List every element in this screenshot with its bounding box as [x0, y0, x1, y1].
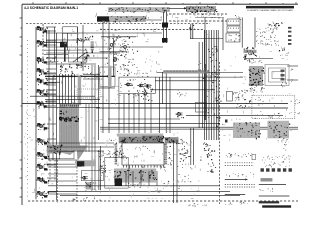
wire bus left vertical A2	[46, 30, 48, 47]
choke L601 dark blob	[77, 161, 84, 166]
parts cluster x172-192	[181, 166, 184, 169]
bus horizontal y119	[108, 118, 180, 120]
pin column x90-94	[91, 41, 94, 44]
audio block top pins	[111, 153, 114, 156]
wire horizontal y51.8	[100, 51, 128, 53]
wire vertical x255	[254, 18, 256, 48]
IC U301 pin marks upper	[60, 113, 61, 114]
dark marks above bottom dashed	[93, 198, 96, 199]
block box outline center	[119, 77, 155, 93]
label text HK bottom right	[285, 138, 288, 141]
wire horizontal left h2	[46, 46, 163, 48]
legend dotted row 1	[225, 162, 254, 164]
gray blob bottom center	[86, 182, 93, 189]
box outline B201	[63, 27, 78, 34]
legend text bottom left	[225, 203, 226, 205]
trace loop middle	[269, 68, 286, 82]
text marks right edge	[290, 69, 293, 71]
border frame left ruler line	[21, 4, 23, 205]
connector CN802 box	[227, 26, 240, 32]
resistor cluster x84-93 dense	[88, 55, 91, 56]
jack J604 row	[277, 40, 279, 43]
shield dotted box mid	[77, 89, 100, 98]
wire vertical x54.3	[53, 27, 55, 62]
wire horizontal y38.6 right	[190, 38, 223, 40]
transistor Q203 lower stage	[40, 154, 43, 157]
parts row below caps	[139, 182, 140, 185]
legend note text row 1	[241, 156, 244, 159]
parts cluster right of IC	[179, 153, 182, 154]
wire vertical pair x190-192 top	[190, 24, 192, 39]
wire horizontal y54.4	[44, 53, 68, 55]
wire horizontal left h0	[46, 32, 100, 34]
trace loop outer	[265, 65, 289, 86]
transistor Q402	[127, 83, 130, 86]
wire bus left vertical A	[48, 30, 50, 160]
border frame left tick marks	[20, 17, 23, 19]
wire horizontal y89.8	[150, 89, 215, 91]
wire horizontal left h4	[46, 57, 108, 59]
marks x175-186	[176, 93, 179, 94]
scan texture right	[238, 39, 240, 41]
wire vertical x83	[82, 25, 84, 71]
cap clump 4	[149, 177, 152, 178]
wire vertical pair x163-166 upper	[163, 12, 165, 43]
wire horizontal left h1	[46, 39, 90, 41]
wire horizontal y185.8	[48, 185, 220, 187]
left column vertical wire	[35, 27, 37, 199]
scan texture mid	[76, 96, 79, 99]
bus wires into IC top	[59, 74, 61, 104]
relay RL1 blob	[162, 23, 168, 28]
marks near x190 top	[193, 24, 196, 27]
parts column x200-218 bottom	[204, 150, 207, 151]
legend gray bar	[261, 178, 273, 181]
transistor Q404	[146, 85, 149, 88]
wire horizontal y74.5 right of bus	[83, 74, 100, 76]
dashed vertical x57 bottom	[56, 160, 58, 202]
diagonal wire	[73, 52, 87, 62]
dashed partition vertical right	[219, 62, 221, 204]
vertical bus strip x206-217	[203, 30, 205, 140]
CRT drive cluster A	[233, 123, 260, 139]
wire vertical x159.7	[159, 77, 161, 133]
wire horizontal y195.7	[60, 195, 240, 197]
connector CN801 box	[227, 19, 240, 25]
text row above bottom dashed	[189, 204, 192, 207]
wire horizontal y66 right edge	[287, 65, 298, 67]
jack J603 row	[269, 36, 272, 39]
cap cluster C31	[125, 41, 128, 42]
CRT socket dotted box	[252, 95, 295, 119]
wire horizontal y82 stub	[45, 81, 60, 83]
pads right of trace loop	[281, 70, 285, 73]
wire vertical pair x199-202	[198, 42, 200, 128]
wire vertical x98.9 bottom	[98, 150, 100, 190]
dashed partition vertical left	[42, 24, 44, 60]
bus horizontal y123.3	[108, 122, 220, 124]
legend dotted rows 2	[225, 184, 256, 186]
wire horizontal left h3	[46, 52, 120, 54]
gray bus bar horizontal right of IC	[76, 160, 97, 166]
wire vertical gray pair x92-95	[91, 65, 93, 190]
signal bus band lower	[97, 16, 146, 22]
wire vertical x103	[102, 20, 104, 133]
wire stubs left column mid	[46, 73, 56, 75]
parts row below center cluster	[138, 93, 139, 96]
IC U601 pins left	[115, 143, 118, 146]
dark clump left of caps	[100, 166, 101, 167]
IC U301 body striations	[61, 105, 63, 150]
VR potentiometer text cluster	[242, 98, 245, 99]
dashed partition line top right A	[169, 13, 227, 15]
connector CN701 dark cluster	[186, 6, 216, 12]
legend text rows right 2	[264, 165, 267, 168]
IC U301 body (shaded)	[59, 104, 81, 155]
cap clump 1	[116, 172, 119, 173]
transistor Q101 input stage	[39, 28, 42, 31]
scan texture left lower	[82, 165, 83, 168]
bits top right corner CRT area	[298, 112, 299, 115]
parts cluster y65-76	[124, 75, 125, 76]
legend small box	[252, 154, 255, 159]
IC U801 label text below	[252, 91, 255, 94]
label text row above CRT drive	[269, 116, 272, 119]
jack J605 row	[267, 43, 268, 46]
IC U601 pin clump A	[119, 137, 142, 144]
bus strip component marks mid	[211, 75, 214, 78]
bus horizontal y103.6	[22, 103, 288, 105]
fuse cluster right x205-219	[215, 76, 216, 77]
shield box outline top	[100, 67, 115, 87]
dashed partition line top left	[26, 23, 210, 25]
transistor Q205 lower stage	[40, 179, 43, 182]
transistor Q403	[139, 84, 142, 87]
wire vertical x205.5 mid	[205, 64, 207, 120]
bus horizontal gray y127.3	[100, 126, 298, 128]
parts above center block	[127, 74, 128, 77]
wire vertical x98.7	[98, 65, 100, 140]
svg-text:SCHEMATIC DIAGRAM / MAIN CIRCU: SCHEMATIC DIAGRAM / MAIN CIRCUIT BOARD	[247, 9, 293, 12]
transistor Q103 input stage	[39, 59, 42, 62]
transistor Q505 cluster	[178, 113, 181, 116]
legend arrow line	[225, 179, 245, 181]
IC U601 pins bottom	[122, 165, 125, 167]
legend corner text top-right	[285, 140, 288, 143]
regulator box outline	[59, 152, 74, 159]
thick gray bus band y70-74	[163, 70, 208, 73]
wire drops below cap bank	[125, 171, 127, 186]
marks near x98 bottom	[102, 155, 105, 156]
legend text small right	[267, 188, 270, 189]
legend dark symbol row	[261, 168, 264, 171]
parts cluster right x215-223	[216, 124, 217, 127]
marks on x199 pair	[199, 70, 202, 71]
bus strip marks lower	[214, 115, 217, 116]
wire vertical x173.3 bottom	[172, 140, 174, 203]
crystal X101 marks	[282, 48, 285, 49]
transistor Q102 input stage	[39, 42, 42, 45]
wire crossing IC y107.4	[45, 106, 100, 108]
CRT label text	[294, 99, 297, 102]
wire horizontal y58.5 right	[244, 58, 273, 60]
IC U601 pin band gray backing	[117, 134, 163, 137]
wire horizontal y191.3	[48, 190, 230, 192]
wire horizontal y158.8	[45, 158, 60, 160]
page bottom dashed line	[28, 200, 298, 202]
capacitor cluster dark x60-67	[60, 42, 67, 48]
scan texture bottom middle	[108, 189, 111, 192]
transistor Q202 lower stage	[40, 140, 43, 143]
parts row x46-58	[46, 56, 49, 59]
tuner TU101 cluster	[244, 50, 257, 53]
bus horizontal y108	[96, 107, 288, 109]
wire vertical x67.3	[66, 33, 68, 50]
legend text left 2	[225, 174, 227, 177]
IC U601 label text	[144, 145, 147, 148]
scan texture top band	[95, 13, 98, 16]
legend line left 3	[225, 193, 245, 195]
box outline lower-left	[68, 50, 87, 62]
wire horizontal y88 stub	[99, 87, 115, 89]
jack J602 row	[267, 30, 270, 33]
legend text rows right 1	[288, 154, 291, 157]
parts cluster left of IC	[109, 153, 112, 156]
wire vertical x109	[108, 20, 110, 133]
transistor Q302	[114, 57, 117, 60]
wire horizontal y80 right edge	[287, 79, 298, 81]
transistor Q106 input stage	[39, 91, 42, 94]
IC U301 top edge pins	[59, 105, 62, 107]
resistor array cluster above IC	[65, 68, 66, 69]
parts cluster right x215-221	[220, 101, 221, 102]
wire horizontal left h5	[46, 63, 96, 65]
audio block box outline	[105, 157, 128, 188]
IC U601 pins right	[165, 143, 168, 146]
wire bus left vertical C	[56, 33, 58, 200]
trace loop inner	[272, 72, 282, 79]
transistor Q201 lower stage	[40, 125, 43, 128]
wire vertical x77.6	[77, 27, 79, 62]
wire vertical x177 bottom	[176, 140, 178, 203]
small box x226-232	[227, 91, 233, 101]
wire bus left vertical B	[52, 76, 54, 160]
box outline x195-206	[196, 102, 207, 112]
wire vertical x162.5 mid	[162, 72, 164, 104]
parts row bottom center	[89, 181, 92, 184]
wire horizontal y80.8	[155, 80, 217, 82]
wire horizontal y36.8	[101, 36, 136, 38]
wire vertical x193.3 bottom	[192, 128, 194, 165]
dashed partition line mid top	[100, 29, 203, 31]
wire stubs left column to dashed	[48, 159, 77, 161]
IF label text rows	[248, 59, 251, 62]
wire vertical x100.5 bottom	[100, 146, 102, 190]
IC U301 pin band mid	[64, 120, 65, 122]
note text rows right section	[200, 15, 203, 18]
heatsink triangle	[77, 146, 89, 162]
transistor Q301	[110, 43, 113, 46]
resistor row on y36.8	[114, 35, 115, 38]
IC U601 body box	[122, 143, 164, 165]
parts near connector column	[240, 18, 241, 21]
legend line right	[259, 184, 286, 186]
transistor Q107 input stage	[39, 103, 42, 106]
jack J601 row	[274, 26, 277, 29]
arrow wire from band to cluster	[169, 7, 187, 9]
dashed partition line top right B	[169, 20, 227, 22]
capacitor bank below IC gray mass	[114, 169, 156, 183]
legend dark bar row 1	[259, 201, 279, 203]
transistor Q206 lower stage	[40, 193, 43, 196]
cap clump 3	[141, 178, 144, 181]
wire horizontal y96	[30, 95, 95, 97]
bus strip component marks upper	[216, 49, 217, 50]
title block bar top-right	[246, 6, 294, 8]
marks below transformer	[283, 85, 286, 88]
wire horizontal y72.4 right	[157, 71, 243, 73]
bus horizontal gray y129.1	[100, 128, 298, 130]
parts cluster far left bottom	[105, 171, 106, 174]
wire vertical x170 mid	[169, 77, 171, 133]
IC U601 pin clump B	[142, 136, 164, 145]
wire vertical x166.2 mid	[165, 72, 167, 133]
dashed partition vertical left margin	[27, 40, 29, 200]
center cluster parts	[131, 84, 134, 87]
transistor Q204 lower stage	[40, 166, 43, 169]
transistor Q407 cluster	[144, 92, 147, 95]
pin row dark y38-41	[79, 39, 80, 42]
connector CN702 blob	[97, 17, 109, 22]
note text top-left of right section	[196, 6, 199, 9]
legend line right 3	[259, 195, 290, 197]
transistor Q305 cluster	[125, 57, 126, 60]
dark mark left of CRT drive	[225, 120, 228, 123]
wire vertical x86 right of IC	[85, 104, 87, 152]
wire horizontal y164.1 stub	[45, 163, 75, 165]
transistor Q602	[83, 176, 86, 179]
CRT drive cluster B	[268, 121, 290, 139]
wire horizontal y99.3	[45, 98, 100, 100]
dashed vertical x77 bottom	[76, 167, 78, 203]
border frame top ruler line	[22, 3, 298, 5]
parts left of pin band	[110, 139, 113, 142]
dashed vertical x50 bottom	[49, 160, 51, 180]
audio box outline 2	[81, 171, 103, 181]
label text right of tuner	[285, 54, 286, 57]
parts right of bus	[84, 76, 85, 79]
capacitor cluster above IC right	[82, 65, 83, 68]
transistor Q105 input stage	[39, 80, 42, 83]
wire vertical x62.7	[62, 33, 64, 42]
pin row dark y35-39	[92, 35, 93, 38]
diode D12 blob	[162, 38, 168, 43]
wire vertical x190.8 bottom	[190, 128, 192, 165]
scan texture left mesh	[65, 42, 67, 45]
wire horizontal y33 center	[100, 32, 162, 34]
wire horizontal y77.1 right	[155, 76, 243, 78]
wire horizontal y50.1	[44, 49, 68, 51]
connector CN803 box	[226, 33, 240, 42]
marks right bottom of IC area	[168, 180, 169, 183]
svg-text:4-3 SCHEMATIC DIAGRAM MAIN-1: 4-3 SCHEMATIC DIAGRAM MAIN-1	[24, 6, 78, 10]
wire vertical x113.4	[112, 38, 114, 76]
wire vertical x205 right	[204, 18, 206, 121]
wire horizontal y42.7	[44, 42, 62, 44]
wire vertical x223	[222, 18, 224, 50]
IC U601 pin clump C	[165, 137, 179, 143]
transistor Q104 input stage	[39, 70, 42, 73]
IC U601 pin clump D	[179, 142, 180, 145]
jack section header text	[278, 25, 281, 26]
wire vertical x89 right of IC	[88, 104, 90, 152]
wire drops from center cluster	[118, 94, 120, 133]
gray bus bar vertical x78-81	[78, 76, 81, 105]
gray bus bar vertical right x108-111	[108, 66, 112, 88]
cap clump 2	[128, 169, 131, 172]
wire horizontal y115.3	[186, 114, 283, 116]
dark blob bottom left	[115, 178, 122, 185]
IC U301 bottom pin cluster	[47, 145, 62, 154]
legend dark bar row 2	[262, 205, 291, 207]
power bus line bold y76	[45, 75, 115, 77]
border frame top tick marks	[32, 2, 34, 4]
dashed vertical x55 bottom	[54, 160, 56, 180]
IC U801 cluster dense	[249, 66, 263, 86]
wire harness to audio area	[48, 142, 114, 144]
signal bus band upper (pin labels row)	[108, 7, 170, 12]
dark bus bar x64 vertical	[64, 42, 66, 62]
wire horizontal y20 stub	[146, 19, 162, 21]
wire vertical x242	[241, 18, 243, 48]
label text rows below IC U801	[249, 90, 252, 93]
wire horizontal y79 right of bus	[83, 78, 100, 80]
solder junction dots on power bus	[53, 75, 55, 77]
